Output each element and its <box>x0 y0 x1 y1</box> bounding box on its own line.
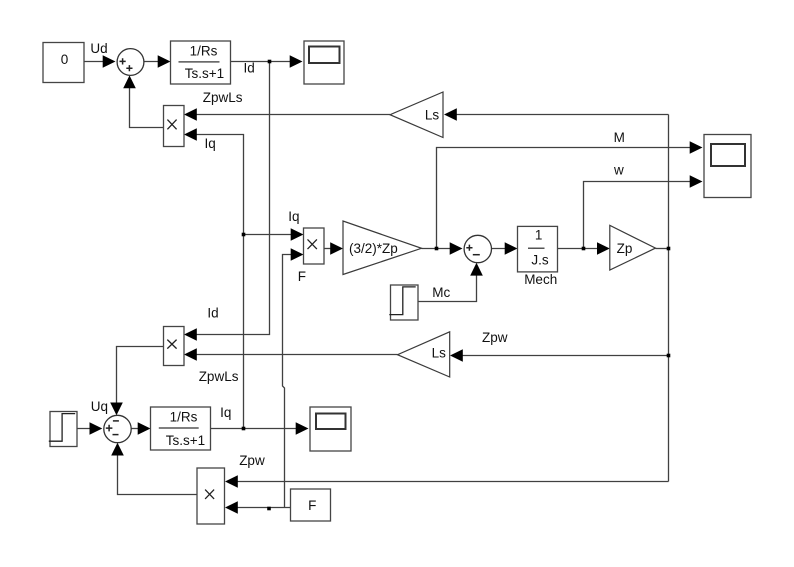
svg-text:Id: Id <box>244 61 255 76</box>
svg-text:F: F <box>308 498 316 513</box>
svg-text:1/Rs: 1/Rs <box>190 44 218 59</box>
svg-text:ZpwLs: ZpwLs <box>199 369 239 384</box>
svg-text:Ls: Ls <box>432 346 447 361</box>
svg-text:ZpwLs: ZpwLs <box>203 90 243 105</box>
svg-text:Zp: Zp <box>617 241 633 256</box>
svg-text:1/Rs: 1/Rs <box>170 410 198 425</box>
svg-text:1: 1 <box>535 228 543 243</box>
svg-text:Iq: Iq <box>205 136 216 151</box>
svg-text:Zpw: Zpw <box>482 330 508 345</box>
svg-text:Ts.s+1: Ts.s+1 <box>166 433 205 448</box>
svg-text:Mc: Mc <box>432 285 450 300</box>
svg-text:0: 0 <box>61 52 69 67</box>
svg-text:M: M <box>614 130 625 145</box>
svg-text:F: F <box>298 269 306 284</box>
svg-text:Iq: Iq <box>220 405 231 420</box>
svg-text:Ls: Ls <box>425 108 440 123</box>
svg-text:(3/2)*Zp: (3/2)*Zp <box>349 241 398 256</box>
svg-text:Ts.s+1: Ts.s+1 <box>185 66 224 81</box>
svg-text:J.s: J.s <box>531 252 549 267</box>
svg-text:Ud: Ud <box>90 41 107 56</box>
svg-text:Zpw: Zpw <box>239 453 265 468</box>
svg-text:w: w <box>613 162 624 177</box>
svg-text:Iq: Iq <box>288 209 299 224</box>
svg-text:Mech: Mech <box>524 272 557 287</box>
svg-text:Uq: Uq <box>91 399 108 414</box>
svg-text:Id: Id <box>207 306 218 321</box>
